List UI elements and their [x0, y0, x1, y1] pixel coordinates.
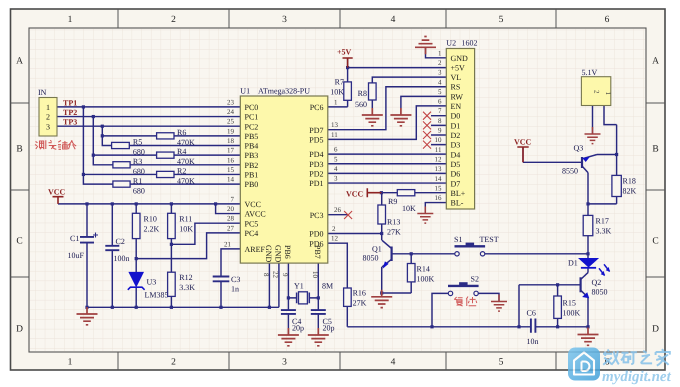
resistor R6 [157, 128, 195, 147]
wire U1 pin8 pin22 GND [269, 263, 279, 307]
svg-text:R11: R11 [179, 215, 192, 224]
svg-text:1: 1 [334, 98, 338, 106]
svg-text:2: 2 [438, 59, 442, 67]
svg-text:PC1: PC1 [245, 113, 259, 122]
svg-text:D5: D5 [451, 160, 461, 169]
resistor R16 [344, 288, 367, 308]
svg-text:1n: 1n [231, 285, 239, 294]
svg-text:9: 9 [281, 273, 289, 277]
wire C1 column [86, 204, 88, 307]
svg-text:100K: 100K [563, 309, 581, 318]
svg-text:2: 2 [332, 225, 336, 233]
svg-text:R14: R14 [417, 265, 430, 274]
wire U2 pin1 to ground [426, 47, 447, 58]
svg-text:27K: 27K [353, 299, 367, 308]
wire PC3 nc stub [328, 214, 348, 216]
svg-text:D4: D4 [451, 150, 461, 159]
resistor R1 [113, 176, 145, 195]
ground under RW [390, 108, 411, 126]
svg-text:PD5: PD5 [309, 136, 323, 145]
svg-text:22: 22 [272, 271, 280, 279]
svg-text:21: 21 [224, 240, 232, 248]
svg-text:D2: D2 [451, 131, 461, 140]
svg-text:TEST: TEST [480, 235, 499, 244]
watermark [568, 348, 672, 386]
wire bottom GND rail [87, 306, 279, 308]
svg-text:R18: R18 [623, 177, 636, 186]
wire TP2 vertical branch [93, 117, 113, 165]
wire TP3 vertical branch [102, 126, 111, 145]
wire bottom rail left of C6 [347, 306, 531, 326]
svg-text:680: 680 [133, 186, 145, 195]
ground under C4 [278, 328, 299, 346]
capacitor C3 [213, 275, 241, 294]
svg-text:3: 3 [438, 69, 442, 77]
svg-text:R5: R5 [133, 138, 142, 147]
svg-text:2: 2 [593, 90, 601, 94]
svg-text:6: 6 [605, 15, 610, 25]
red text 测试输入 [35, 140, 76, 149]
svg-text:14: 14 [435, 175, 443, 183]
wire AVCC branch [216, 204, 241, 214]
switch S1 TEST [454, 235, 499, 256]
svg-text:R4: R4 [177, 147, 186, 156]
power port VCC mid [346, 188, 381, 198]
wire +5V node [328, 58, 447, 107]
svg-text:PD3: PD3 [309, 160, 323, 169]
svg-text:C3: C3 [231, 275, 240, 284]
wire 5.1V pins [593, 106, 617, 134]
svg-text:4: 4 [438, 78, 442, 86]
svg-text:4: 4 [391, 358, 396, 368]
net label TP3 [63, 118, 77, 127]
svg-text:82K: 82K [623, 187, 637, 196]
capacitor C6 [527, 309, 539, 347]
svg-text:1: 1 [604, 92, 612, 96]
svg-text:20: 20 [227, 205, 235, 213]
svg-text:mydigit.net: mydigit.net [602, 369, 672, 385]
svg-text:S1: S1 [454, 235, 462, 244]
svg-text:RS: RS [451, 83, 461, 92]
wire PD1 to D7 [328, 182, 447, 184]
svg-text:D6: D6 [451, 170, 461, 179]
wire R2 row to PB1 [83, 173, 240, 175]
svg-text:TP1: TP1 [63, 98, 77, 107]
svg-text:PB0: PB0 [245, 180, 259, 189]
svg-text:8050: 8050 [363, 254, 379, 263]
wire TP3 to PC2 [57, 125, 240, 127]
svg-text:15: 15 [435, 184, 443, 192]
svg-text:RW: RW [451, 92, 464, 101]
wire R3 row to PB2 [130, 164, 240, 166]
svg-text:R1: R1 [133, 176, 142, 185]
wire TP1 vertical branch [83, 107, 113, 184]
svg-text:GND: GND [451, 54, 469, 63]
wire U2 pin16 to ground [425, 203, 446, 213]
svg-text:Q3: Q3 [574, 144, 584, 153]
ground under 5.1V box [585, 127, 601, 144]
svg-text:1: 1 [438, 49, 442, 57]
svg-text:C2: C2 [116, 237, 125, 246]
wire C2 column [111, 204, 113, 307]
svg-text:4: 4 [334, 165, 338, 173]
svg-text:11: 11 [435, 146, 442, 154]
wire C4 column [287, 298, 289, 334]
svg-text:25: 25 [227, 118, 235, 126]
svg-text:19: 19 [227, 127, 235, 135]
svg-text:10uF: 10uF [68, 251, 85, 260]
no-connect X on U2 D0 [423, 112, 431, 120]
power port VCC right [514, 138, 532, 163]
svg-text:A: A [16, 57, 23, 67]
ground at C1 rail [77, 307, 98, 325]
svg-text:R9: R9 [388, 197, 397, 206]
svg-text:6: 6 [334, 146, 338, 154]
svg-text:C: C [16, 237, 22, 247]
svg-text:2: 2 [171, 15, 176, 25]
wire VCC rail [58, 203, 240, 205]
net label TP2 [63, 108, 77, 117]
no-connect X on U2 D3 [423, 141, 431, 149]
wire R13 column PD0 Q1 [328, 193, 382, 293]
wire Q3 emitter to R18 node [597, 154, 617, 156]
svg-text:PD1: PD1 [309, 179, 323, 188]
svg-text:S2: S2 [471, 275, 479, 284]
resistor R8 [355, 83, 376, 109]
svg-text:VCC: VCC [514, 138, 532, 147]
svg-text:VCC: VCC [245, 200, 261, 209]
red text 复位 [454, 297, 477, 307]
resistor R3 [113, 157, 145, 176]
svg-text:U1: U1 [240, 87, 250, 96]
wire TP1 to PC0 [57, 106, 240, 108]
wire R14 top stub [410, 254, 412, 264]
svg-text:3.3K: 3.3K [596, 227, 612, 236]
capacitor C1 [68, 233, 99, 261]
svg-text:4: 4 [391, 15, 396, 25]
svg-text:5: 5 [499, 358, 504, 368]
wire PD5 to EN [328, 106, 447, 139]
svg-text:R16: R16 [353, 289, 366, 298]
zener U3 LM385 [128, 272, 169, 299]
resistor R13 [378, 205, 401, 237]
svg-text:10: 10 [311, 271, 319, 279]
svg-text:D1: D1 [451, 121, 461, 130]
svg-text:10K: 10K [402, 204, 416, 213]
svg-text:+5V: +5V [337, 48, 352, 57]
svg-text:PB6: PB6 [283, 245, 292, 259]
svg-text:R2: R2 [177, 167, 186, 176]
transistor Q1 8050 [363, 240, 392, 267]
svg-text:AVCC: AVCC [245, 210, 266, 219]
svg-text:5: 5 [334, 155, 338, 163]
resistor R5 [112, 138, 145, 157]
ground under S2 [491, 295, 507, 312]
svg-text:C1: C1 [70, 234, 79, 243]
wire TEST net Q1 base S1 [392, 253, 588, 255]
svg-text:3.3K: 3.3K [179, 283, 195, 292]
svg-text:2: 2 [46, 113, 50, 122]
svg-text:TP2: TP2 [63, 108, 77, 117]
wire AREF to C3 [221, 249, 240, 307]
svg-text:LM385: LM385 [145, 291, 169, 300]
svg-text:GND: GND [274, 245, 283, 263]
svg-text:20p: 20p [292, 324, 304, 333]
svg-text:R10: R10 [144, 215, 157, 224]
wire crystal net PB6 PB7 [288, 263, 318, 298]
svg-text:PB5: PB5 [245, 132, 259, 141]
crystal Y1 [294, 282, 333, 304]
svg-text:PC4: PC4 [245, 229, 259, 238]
svg-text:10K: 10K [179, 225, 193, 234]
svg-text:28: 28 [227, 215, 235, 223]
svg-text:VCC: VCC [346, 190, 364, 199]
wire TP2 to PC1 [57, 116, 240, 118]
svg-text:PD4: PD4 [309, 150, 323, 159]
wire PD2 to D6 [328, 172, 447, 174]
svg-text:R3: R3 [133, 157, 142, 166]
svg-text:BL+: BL+ [451, 189, 466, 198]
IC U1 ATmega328-PU [224, 87, 342, 279]
svg-text:16: 16 [227, 156, 235, 164]
wire bottom rail right of C6 [535, 326, 588, 328]
svg-text:8: 8 [262, 273, 270, 277]
svg-text:10K: 10K [330, 88, 344, 97]
svg-text:1: 1 [68, 15, 73, 25]
svg-text:R15: R15 [563, 299, 576, 308]
wire U2 nc stubs D0-D3 [431, 116, 446, 145]
svg-text:23: 23 [227, 98, 235, 106]
svg-text:10n: 10n [527, 337, 539, 346]
svg-text:3: 3 [46, 122, 50, 131]
svg-text:24: 24 [227, 108, 235, 116]
power port +5V [337, 48, 353, 68]
svg-text:R8: R8 [358, 89, 367, 98]
svg-text:IN: IN [38, 88, 47, 97]
svg-text:11: 11 [331, 131, 338, 139]
wire PD3 to D5 [328, 163, 447, 165]
ground under U2 pin16 [417, 207, 433, 224]
power port VCC left [48, 188, 66, 204]
svg-text:12: 12 [435, 156, 443, 164]
svg-text:3: 3 [282, 15, 287, 25]
resistor R7 [330, 78, 351, 101]
svg-text:A: A [652, 57, 659, 67]
wire R10 column / PC4 link [136, 204, 240, 307]
svg-text:3: 3 [334, 175, 338, 183]
wire Q2 base net [519, 285, 581, 327]
svg-text:12: 12 [331, 235, 339, 243]
connector IN [38, 88, 57, 136]
svg-text:13: 13 [331, 121, 339, 129]
svg-text:B: B [16, 145, 22, 155]
svg-text:26: 26 [334, 206, 342, 214]
svg-text:Q2: Q2 [592, 278, 602, 287]
capacitor C5 [311, 310, 335, 332]
svg-text:100K: 100K [417, 275, 435, 284]
svg-text:27: 27 [227, 224, 235, 232]
svg-text:PC5: PC5 [245, 219, 259, 228]
svg-text:D0: D0 [451, 112, 461, 121]
svg-text:R12: R12 [179, 273, 192, 282]
svg-text:1: 1 [68, 358, 73, 368]
wire R6 row to PB5 [102, 135, 240, 137]
ground under Q1 emitter [371, 290, 392, 308]
svg-text:20p: 20p [323, 324, 335, 333]
svg-text:18: 18 [227, 137, 235, 145]
svg-text:C: C [652, 237, 658, 247]
svg-text:13: 13 [435, 165, 443, 173]
svg-text:14: 14 [227, 176, 235, 184]
svg-text:2: 2 [171, 358, 176, 368]
wire PD4 to D4 [328, 153, 447, 155]
LED D1 [568, 259, 610, 276]
ground under C5 [308, 328, 329, 346]
svg-text:D3: D3 [451, 141, 461, 150]
svg-text:+5V: +5V [451, 63, 466, 72]
svg-text:8050: 8050 [592, 288, 608, 297]
wire Q1 emitter ground R14 bottom [382, 282, 412, 293]
svg-text:470K: 470K [177, 157, 195, 166]
svg-text:470K: 470K [177, 177, 195, 186]
svg-text:EN: EN [451, 102, 462, 111]
resistor R9 [388, 190, 416, 213]
svg-text:5: 5 [499, 15, 504, 25]
svg-text:VCC: VCC [48, 188, 66, 197]
svg-text:C6: C6 [527, 309, 536, 318]
svg-text:D1: D1 [568, 259, 578, 268]
resistor R12 [168, 272, 196, 296]
wire R4 row to PB3 [93, 154, 240, 156]
svg-text:D: D [16, 325, 23, 335]
svg-text:9: 9 [438, 127, 442, 135]
wire R5 row to PB4 [129, 145, 240, 147]
svg-text:D: D [652, 325, 659, 335]
ground under Q2 rail [578, 328, 599, 346]
resistor R15 [554, 296, 581, 318]
svg-text:1: 1 [46, 103, 50, 112]
svg-text:8M: 8M [322, 282, 333, 291]
svg-text:PB3: PB3 [245, 151, 259, 160]
svg-text:R17: R17 [596, 217, 609, 226]
svg-text:100n: 100n [114, 254, 130, 263]
svg-text:Q1: Q1 [372, 245, 382, 254]
wire RW to ground [401, 96, 446, 108]
wire C5 column [317, 298, 319, 334]
svg-text:U2: U2 [446, 39, 456, 48]
svg-text:8550: 8550 [562, 167, 578, 176]
resistor R14 [407, 264, 434, 284]
wire Q3 base VCC [523, 147, 582, 162]
resistor R2 [157, 167, 195, 186]
wire R11 column / PC5 link [171, 204, 240, 307]
svg-text:PB7: PB7 [313, 245, 322, 259]
svg-text:17: 17 [227, 147, 235, 155]
capacitor C2 [105, 237, 129, 263]
svg-text:2.2K: 2.2K [144, 225, 160, 234]
svg-text:5.1V: 5.1V [582, 68, 598, 77]
wire PD7 to RS [328, 87, 447, 130]
svg-text:R7: R7 [335, 78, 344, 87]
svg-text:470K: 470K [177, 138, 195, 147]
svg-text:8: 8 [438, 117, 442, 125]
capacitor C4 [281, 310, 304, 332]
svg-text:R6: R6 [177, 128, 186, 137]
svg-text:BL-: BL- [451, 199, 464, 208]
IC U2 1602 [435, 39, 478, 210]
wire R18 column [616, 125, 618, 204]
svg-text:PB4: PB4 [245, 142, 259, 151]
svg-text:5: 5 [438, 88, 442, 96]
net label TP1 [63, 98, 77, 107]
ground above U2 pin1 (inverted) [415, 37, 436, 55]
wire D1 R17 column [588, 173, 617, 327]
svg-text:ATmega328-PU: ATmega328-PU [258, 87, 310, 96]
transistor Q3 8550 [562, 144, 597, 176]
switch S2 [448, 275, 479, 296]
svg-text:R13: R13 [387, 218, 400, 227]
wire PD6 to R16 [328, 243, 348, 288]
svg-text:U3: U3 [147, 278, 157, 287]
wire R1 row to PB0 [130, 183, 240, 185]
resistor R18 [612, 175, 637, 196]
no-connect X on U2 D2 [423, 131, 431, 139]
svg-text:560: 560 [355, 100, 367, 109]
svg-text:680: 680 [133, 148, 145, 157]
svg-text:GND: GND [264, 245, 273, 263]
resistor R11 [168, 213, 194, 238]
svg-text:10: 10 [435, 136, 443, 144]
svg-text:1602: 1602 [462, 39, 478, 48]
svg-text:TP3: TP3 [63, 118, 77, 127]
no-connect X on PC3 pin 26 [344, 211, 352, 219]
svg-text:Y1: Y1 [294, 282, 304, 291]
svg-text:PC2: PC2 [245, 122, 259, 131]
svg-text:27K: 27K [387, 228, 401, 237]
ground under R8 [362, 108, 383, 126]
svg-text:D7: D7 [451, 179, 461, 188]
wire BL+ net VCC R9 [367, 192, 446, 194]
svg-text:7: 7 [231, 195, 235, 203]
svg-text:15: 15 [227, 166, 235, 174]
svg-text:PB2: PB2 [245, 161, 259, 170]
wire VL to R8 [372, 77, 446, 108]
svg-text:680: 680 [133, 167, 145, 176]
regulator 5.1V box [581, 68, 612, 106]
svg-text:PD2: PD2 [309, 170, 323, 179]
svg-text:PC6: PC6 [310, 103, 324, 112]
resistor R17 [583, 215, 611, 235]
resistor R10 [132, 213, 159, 238]
svg-text:7: 7 [438, 107, 442, 115]
svg-text:PC3: PC3 [310, 211, 324, 220]
transistor Q2 8050 [581, 273, 608, 298]
svg-text:16: 16 [435, 194, 443, 202]
svg-text:3: 3 [282, 358, 287, 368]
svg-text:AREF: AREF [245, 245, 266, 254]
svg-text:PD0: PD0 [309, 230, 323, 239]
svg-text:PB1: PB1 [245, 171, 259, 180]
svg-text:6: 6 [438, 98, 442, 106]
resistor R4 [157, 147, 195, 166]
svg-text:PC0: PC0 [245, 103, 259, 112]
no-connect X on U2 D1 [423, 121, 431, 129]
svg-text:VL: VL [451, 73, 462, 82]
svg-text:PD7: PD7 [309, 126, 323, 135]
wire S2 branch [432, 293, 499, 326]
svg-text:B: B [652, 145, 658, 155]
